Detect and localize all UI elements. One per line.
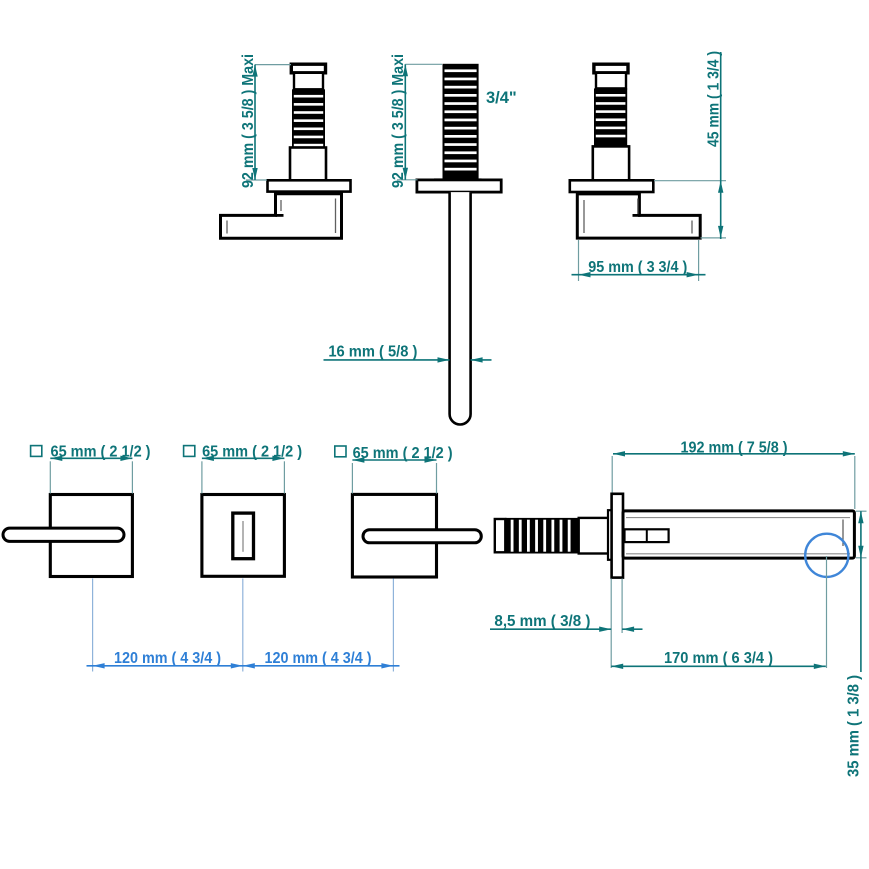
spout S2 threaded section: [505, 518, 578, 554]
dim 92mm S1 extension line top: [405, 63, 442, 65]
svg-text:16 mm ( 5/8 ): 16 mm ( 5/8 ): [328, 344, 417, 361]
valve V1 threaded section: [292, 89, 325, 147]
dim 120mm extension lines (blue): [93, 579, 394, 672]
svg-text:35 mm ( 1 3/8 ): 35 mm ( 1 3/8 ): [846, 675, 863, 777]
svg-text:95 mm ( 3 3/4 ): 95 mm ( 3 3/4 ): [588, 259, 687, 276]
svg-text:8,5 mm ( 3/8 ): 8,5 mm ( 3/8 ): [494, 613, 590, 630]
dim 8.5mm dimension line right: [622, 628, 642, 630]
valve V1 wall flange: [268, 180, 351, 191]
dim 65mm P1 arrow left: [50, 456, 62, 461]
valve V2 gasket seal segments: [581, 192, 640, 195]
valve V1 gasket seal segments: [277, 192, 341, 195]
dim 92mm S1 arrow up: [403, 64, 408, 76]
spout S2 smooth cylinder: [579, 518, 609, 554]
dim 92mm V1 arrow up: [252, 65, 257, 77]
dim 45mm extension line bottom: [701, 237, 727, 239]
valve V2 body with lever (side view): [577, 194, 700, 238]
dim 65mm P2 dimension line: [202, 457, 285, 459]
dim 45mm arrow up: [718, 181, 723, 193]
plate P2 spout slot: [233, 513, 254, 559]
valve V1 body highlight lines: [227, 199, 336, 234]
plate P3 square escutcheon: [352, 494, 436, 577]
svg-text:92 mm ( 3 5/8 ) Maxi: 92 mm ( 3 5/8 ) Maxi: [390, 54, 407, 188]
plate P3 lever handle: [363, 530, 481, 543]
dim 35mm arrow down: [858, 546, 863, 558]
dim 65mm P1 dimension line: [50, 457, 132, 459]
spout S1 flange top ticks: [434, 178, 482, 180]
dim 8.5mm arrow right: [599, 627, 611, 632]
spout S2 tube inner shading lines: [626, 518, 850, 554]
plate P2 slot highlight: [242, 521, 244, 552]
spout S2 wall flange: [612, 494, 623, 578]
valve V2 lower cylinder: [593, 146, 629, 180]
valve V2 lever step overhang: [633, 214, 641, 217]
valve V1 lever step overhang: [276, 214, 284, 217]
spout S2 outlet centerline: [826, 556, 828, 668]
svg-text:192 mm ( 7 5/8 ): 192 mm ( 7 5/8 ): [681, 440, 788, 457]
dim 65mm P1 arrow right: [120, 456, 132, 461]
valve V2 body highlight lines: [584, 199, 692, 234]
spout S2 outlet circle (blue): [805, 534, 848, 577]
svg-text:45 mm ( 1 3/4 ): 45 mm ( 1 3/4 ): [706, 51, 723, 147]
svg-text:170 mm ( 6 3/4 ): 170 mm ( 6 3/4 ): [664, 650, 773, 667]
dim 92mm S1 arrow down: [403, 168, 408, 180]
dim 16mm arrow right: [438, 357, 450, 362]
dim 65mm P3 arrow right: [425, 457, 437, 462]
svg-text:92 mm ( 3 5/8 ) Maxi: 92 mm ( 3 5/8 ) Maxi: [240, 54, 257, 188]
dim 16mm dimension line right: [471, 359, 492, 361]
valve V1 lower cylinder: [290, 148, 326, 181]
valve V2 threaded stem cap: [594, 64, 628, 73]
dim 65mm P1 extension lines: [50, 461, 132, 493]
dim 92mm S1 extension line bottom: [397, 179, 418, 181]
dim 65mm P1 square symbol: [31, 446, 42, 457]
dim 95mm dimension line: [572, 274, 706, 276]
dim 35mm dimension line: [860, 511, 862, 672]
dim 192mm extension line right: [854, 456, 856, 509]
dim 192mm arrow right: [843, 451, 855, 456]
dim 65mm P2 arrow left: [202, 456, 214, 461]
dim 192mm extension line left: [611, 456, 613, 493]
dim 45mm arrow down: [718, 226, 723, 238]
svg-text:120 mm ( 4 3/4 ): 120 mm ( 4 3/4 ): [265, 650, 372, 667]
dim 16mm dimension line left: [324, 359, 450, 361]
dim 92mm V1 dimension line: [254, 65, 256, 180]
dim 92mm V1 extension line top: [255, 64, 291, 66]
dim 45mm dimension line: [720, 52, 722, 239]
spout S2 spout tube: [623, 511, 854, 558]
svg-text:3/4": 3/4": [486, 89, 517, 107]
spout S2 set screw detail: [625, 529, 669, 542]
dim 95mm extension line left: [578, 240, 580, 281]
dim 170mm arrow left: [611, 664, 623, 669]
spout S1 supply tube with rounded end: [450, 192, 471, 424]
dim 120mm arrows: [93, 663, 394, 668]
dim 65mm P3 dimension line: [352, 459, 436, 461]
dim 65mm P2 square symbol: [184, 446, 195, 457]
dim 65mm P2 arrow right: [272, 456, 284, 461]
svg-text:65 mm ( 2 1/2 ): 65 mm ( 2 1/2 ): [353, 445, 453, 462]
dim 170mm dimension line: [611, 665, 826, 667]
dim 65mm P2 extension lines: [202, 461, 285, 493]
plate P1 lever handle: [3, 528, 124, 541]
dim 95mm extension line right: [698, 240, 700, 281]
dim 95mm arrow right: [687, 272, 699, 277]
dim 65mm P3 extension lines: [352, 463, 436, 494]
svg-text:65 mm ( 2 1/2 ): 65 mm ( 2 1/2 ): [202, 444, 302, 461]
dim 35mm extension line bottom: [856, 557, 867, 559]
valve V1 threaded stem cap: [291, 64, 325, 73]
dim 8.5mm extension line left: [610, 579, 612, 669]
dim 16mm arrow left: [471, 357, 483, 362]
spout S2 step ring: [608, 510, 612, 560]
plate P2 square escutcheon: [202, 495, 285, 577]
spout S2 rod end cap: [495, 519, 506, 552]
dim 65mm P3 square symbol: [335, 446, 346, 457]
dim 92mm S1 dimension line: [404, 64, 406, 180]
dim 192mm arrow left: [613, 451, 625, 456]
spout S1 wall flange: [417, 180, 501, 192]
dim 192mm dimension line: [613, 453, 855, 455]
dim 170mm arrow right: [814, 664, 826, 669]
dim 120mm dimension line: [87, 665, 400, 667]
dim 8.5mm arrow left: [622, 627, 634, 632]
valve V2 threaded section: [594, 88, 627, 146]
spout S1 threaded rod 3/4 inch: [443, 64, 479, 180]
dim 65mm P3 arrow left: [352, 457, 364, 462]
dim 92mm V1 arrow down: [252, 168, 257, 180]
dim 8.5mm extension line right: [621, 579, 623, 634]
valve V1 stem neck: [294, 73, 323, 90]
dim 35mm extension line top: [856, 510, 867, 512]
plate P1 square escutcheon: [50, 495, 132, 577]
svg-text:120 mm ( 4 3/4 ): 120 mm ( 4 3/4 ): [114, 650, 221, 667]
valve V1 body with lever (side view): [221, 194, 342, 239]
dim 95mm arrow left: [579, 272, 591, 277]
dim 35mm arrow up: [858, 511, 863, 523]
svg-text:65 mm ( 2 1/2 ): 65 mm ( 2 1/2 ): [51, 444, 151, 461]
dim 8.5mm dimension line left: [490, 628, 611, 630]
dim 45mm extension line top: [654, 180, 726, 182]
spout S2 tube highlight: [842, 520, 844, 547]
valve V2 stem neck: [596, 73, 626, 89]
dim 92mm V1 extension line bottom: [246, 179, 267, 181]
valve V2 wall flange: [570, 180, 654, 192]
